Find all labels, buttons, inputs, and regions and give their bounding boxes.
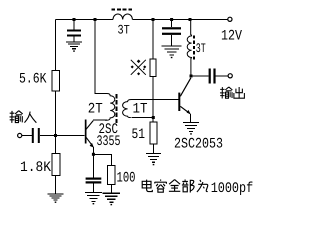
label shu-out 1 (220, 87, 232, 99)
ground (C1) (66, 42, 82, 52)
label dian (142, 180, 152, 192)
inductor L2 3T (collector load) (187, 20, 191, 77)
terminal 12V (228, 17, 232, 21)
wire R3 to node (crosses base wire) (152, 77, 154, 123)
junction rail/2T (94, 18, 97, 21)
wire 1T top to Q2 base (132, 99, 179, 101)
ground (C3) (162, 46, 182, 58)
label bu (182, 180, 194, 193)
wire Q2 emitter to ground (190, 114, 192, 123)
ground (C5) (85, 192, 102, 204)
capacitor C3 (rail bypass) (162, 27, 181, 35)
core of L2 (dashed) (193, 36, 195, 61)
junction R3/1T/R4 node (152, 116, 155, 119)
transistor Q1 2SC3355 (85, 120, 94, 148)
transformer T1 secondary 1T (123, 100, 132, 118)
svg-text:51: 51 (132, 127, 146, 143)
svg-text:1.8K: 1.8K (20, 160, 51, 176)
ground (R5) (103, 193, 121, 205)
wire rail to R3 (152, 20, 154, 60)
junction collector node (190, 75, 193, 78)
svg-text:5.6K: 5.6K (19, 72, 47, 88)
wire R5 to ground (110, 184, 112, 193)
wire C5 to ground (92, 184, 94, 193)
transistor Q2 2SC2053 (178, 78, 191, 114)
svg-text:100: 100 (117, 171, 136, 187)
reference mark (selected resistor) (131, 59, 147, 75)
resistor R4 51 (150, 122, 157, 144)
inductor L1 3T (series in rail) (113, 14, 132, 19)
capacitor C1 (bypass, to ground) (67, 30, 81, 37)
wire 1T bottom to R3/R4 node (132, 117, 154, 119)
svg-text:3T: 3T (118, 23, 130, 38)
wire C1 stub (73, 20, 75, 30)
wire top supply rail left segment (56, 19, 114, 21)
svg-text:1000pf: 1000pf (211, 181, 254, 197)
junction rail/C3 (170, 18, 173, 21)
junction rail/C1 (73, 18, 76, 21)
wire C3 to ground (171, 35, 173, 46)
resistor R3 (starred) (150, 59, 156, 77)
junction bias node (54, 134, 57, 137)
wire Q1 collector to 2T bottom (93, 119, 107, 121)
wire top supply rail right segment (133, 19, 229, 21)
terminal output (228, 74, 232, 78)
wire C3 stub (171, 20, 173, 28)
label quan (169, 180, 180, 192)
label chu-out 2 (234, 87, 244, 98)
wire rail down to 2T primary (94, 20, 96, 95)
wire C4 to output terminal (216, 75, 228, 77)
ground (R2) (48, 194, 64, 203)
wire left column upper (rail to R1) (55, 20, 57, 72)
svg-text:12V: 12V (221, 29, 242, 45)
resistor R2 1.8K (52, 154, 60, 176)
core of L1 (dashed) (112, 9, 134, 11)
transformer T1 primary 2T (95, 94, 115, 121)
svg-text:3T: 3T (196, 41, 206, 56)
wire left column mid (R1 to input node) (55, 91, 57, 154)
svg-text:3355: 3355 (97, 134, 121, 150)
wire input terminal to C2 (22, 135, 32, 137)
terminal input (18, 133, 22, 137)
wire C2 to Q1 base (40, 135, 85, 137)
junction rail/L2 (189, 18, 192, 21)
svg-text:2T: 2T (88, 102, 103, 118)
wire rail to 12V terminal (227, 19, 229, 21)
label shu-in 1 (9, 111, 22, 123)
resistor R1 5.6K (52, 71, 60, 92)
label wei (197, 180, 208, 192)
wire R4 to ground (153, 144, 155, 153)
capacitor C4 (output coupling) (209, 69, 216, 84)
label ru-in 2 (24, 112, 36, 123)
svg-text:2SC2053: 2SC2053 (174, 136, 223, 152)
junction emitter node (92, 153, 95, 156)
ground (R4) (146, 154, 161, 166)
wire collector node to C4 (191, 75, 209, 77)
wire emitter node to R5 (93, 154, 111, 165)
ground (Q2 emitter) (183, 123, 199, 135)
wire emitter node to C5 (92, 154, 94, 177)
resistor R5 100 (108, 166, 116, 185)
label rong (155, 180, 167, 193)
wire R2 to ground (55, 175, 57, 194)
wire C1 to ground (73, 37, 75, 42)
junction rail/R3 (152, 18, 155, 21)
capacitor C2 (input coupling) (32, 128, 40, 143)
svg-text:1T: 1T (133, 102, 148, 118)
core of T1 (dashed bold) (116, 94, 118, 123)
wire Q1 emitter down (92, 147, 94, 154)
capacitor C5 (emitter bypass) (86, 178, 102, 184)
